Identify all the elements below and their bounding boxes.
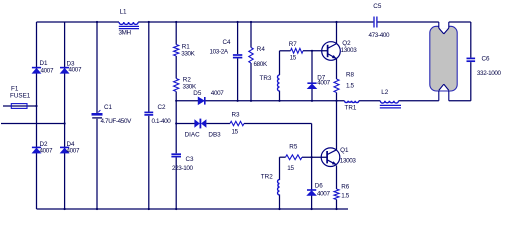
svg-text:473-400: 473-400 [369, 32, 391, 39]
svg-text:332-1000: 332-1000 [477, 70, 502, 77]
svg-text:15: 15 [287, 165, 294, 172]
svg-text:680K: 680K [254, 61, 268, 68]
svg-text:15: 15 [290, 54, 297, 61]
svg-text:D5: D5 [193, 90, 202, 97]
svg-text:R6: R6 [341, 183, 350, 190]
svg-text:1.5: 1.5 [346, 83, 355, 90]
svg-text:TR1: TR1 [345, 105, 357, 112]
svg-text:4007: 4007 [317, 79, 330, 86]
svg-text:13003: 13003 [341, 47, 358, 54]
svg-text:R4: R4 [257, 46, 266, 53]
svg-text:R2: R2 [183, 76, 192, 83]
svg-text:13003: 13003 [340, 158, 357, 165]
svg-text:L1: L1 [120, 9, 128, 16]
svg-text:1.5: 1.5 [341, 193, 350, 200]
svg-text:FUSE1: FUSE1 [10, 93, 31, 100]
svg-text:Q1: Q1 [340, 147, 349, 154]
svg-text:L2: L2 [381, 89, 389, 96]
svg-text:330K: 330K [181, 50, 195, 57]
svg-text:D6: D6 [315, 182, 324, 189]
svg-text:4007: 4007 [317, 190, 330, 197]
svg-text:4.7UF-450V: 4.7UF-450V [101, 118, 133, 125]
svg-text:TR2: TR2 [261, 173, 273, 180]
svg-text:103-2A: 103-2A [210, 48, 229, 55]
svg-text:223-100: 223-100 [172, 165, 194, 172]
svg-text:4007: 4007 [41, 68, 54, 75]
svg-text:15: 15 [232, 128, 239, 135]
svg-text:C5: C5 [373, 3, 382, 10]
svg-text:D1: D1 [40, 60, 49, 67]
svg-text:Q2: Q2 [342, 40, 351, 47]
svg-text:R7: R7 [289, 41, 298, 48]
svg-text:4007: 4007 [40, 148, 53, 155]
svg-text:C3: C3 [186, 156, 195, 163]
svg-text:C4: C4 [223, 39, 232, 46]
svg-text:DIAC: DIAC [185, 132, 200, 139]
svg-text:4007: 4007 [67, 148, 80, 155]
svg-text:C2: C2 [158, 104, 167, 111]
svg-text:F1: F1 [11, 86, 19, 93]
svg-text:TR3: TR3 [260, 75, 272, 82]
svg-text:4007: 4007 [211, 90, 224, 97]
svg-text:R5: R5 [289, 143, 298, 150]
svg-text:4007: 4007 [69, 67, 82, 74]
svg-text:R8: R8 [346, 72, 355, 79]
svg-text:C1: C1 [104, 104, 113, 111]
svg-text:C6: C6 [482, 56, 491, 63]
svg-text:0.1-400: 0.1-400 [152, 118, 172, 125]
svg-text:R3: R3 [232, 111, 241, 118]
svg-text:DB3: DB3 [208, 132, 221, 139]
svg-text:3MH: 3MH [119, 30, 132, 37]
svg-text:R1: R1 [182, 43, 191, 50]
